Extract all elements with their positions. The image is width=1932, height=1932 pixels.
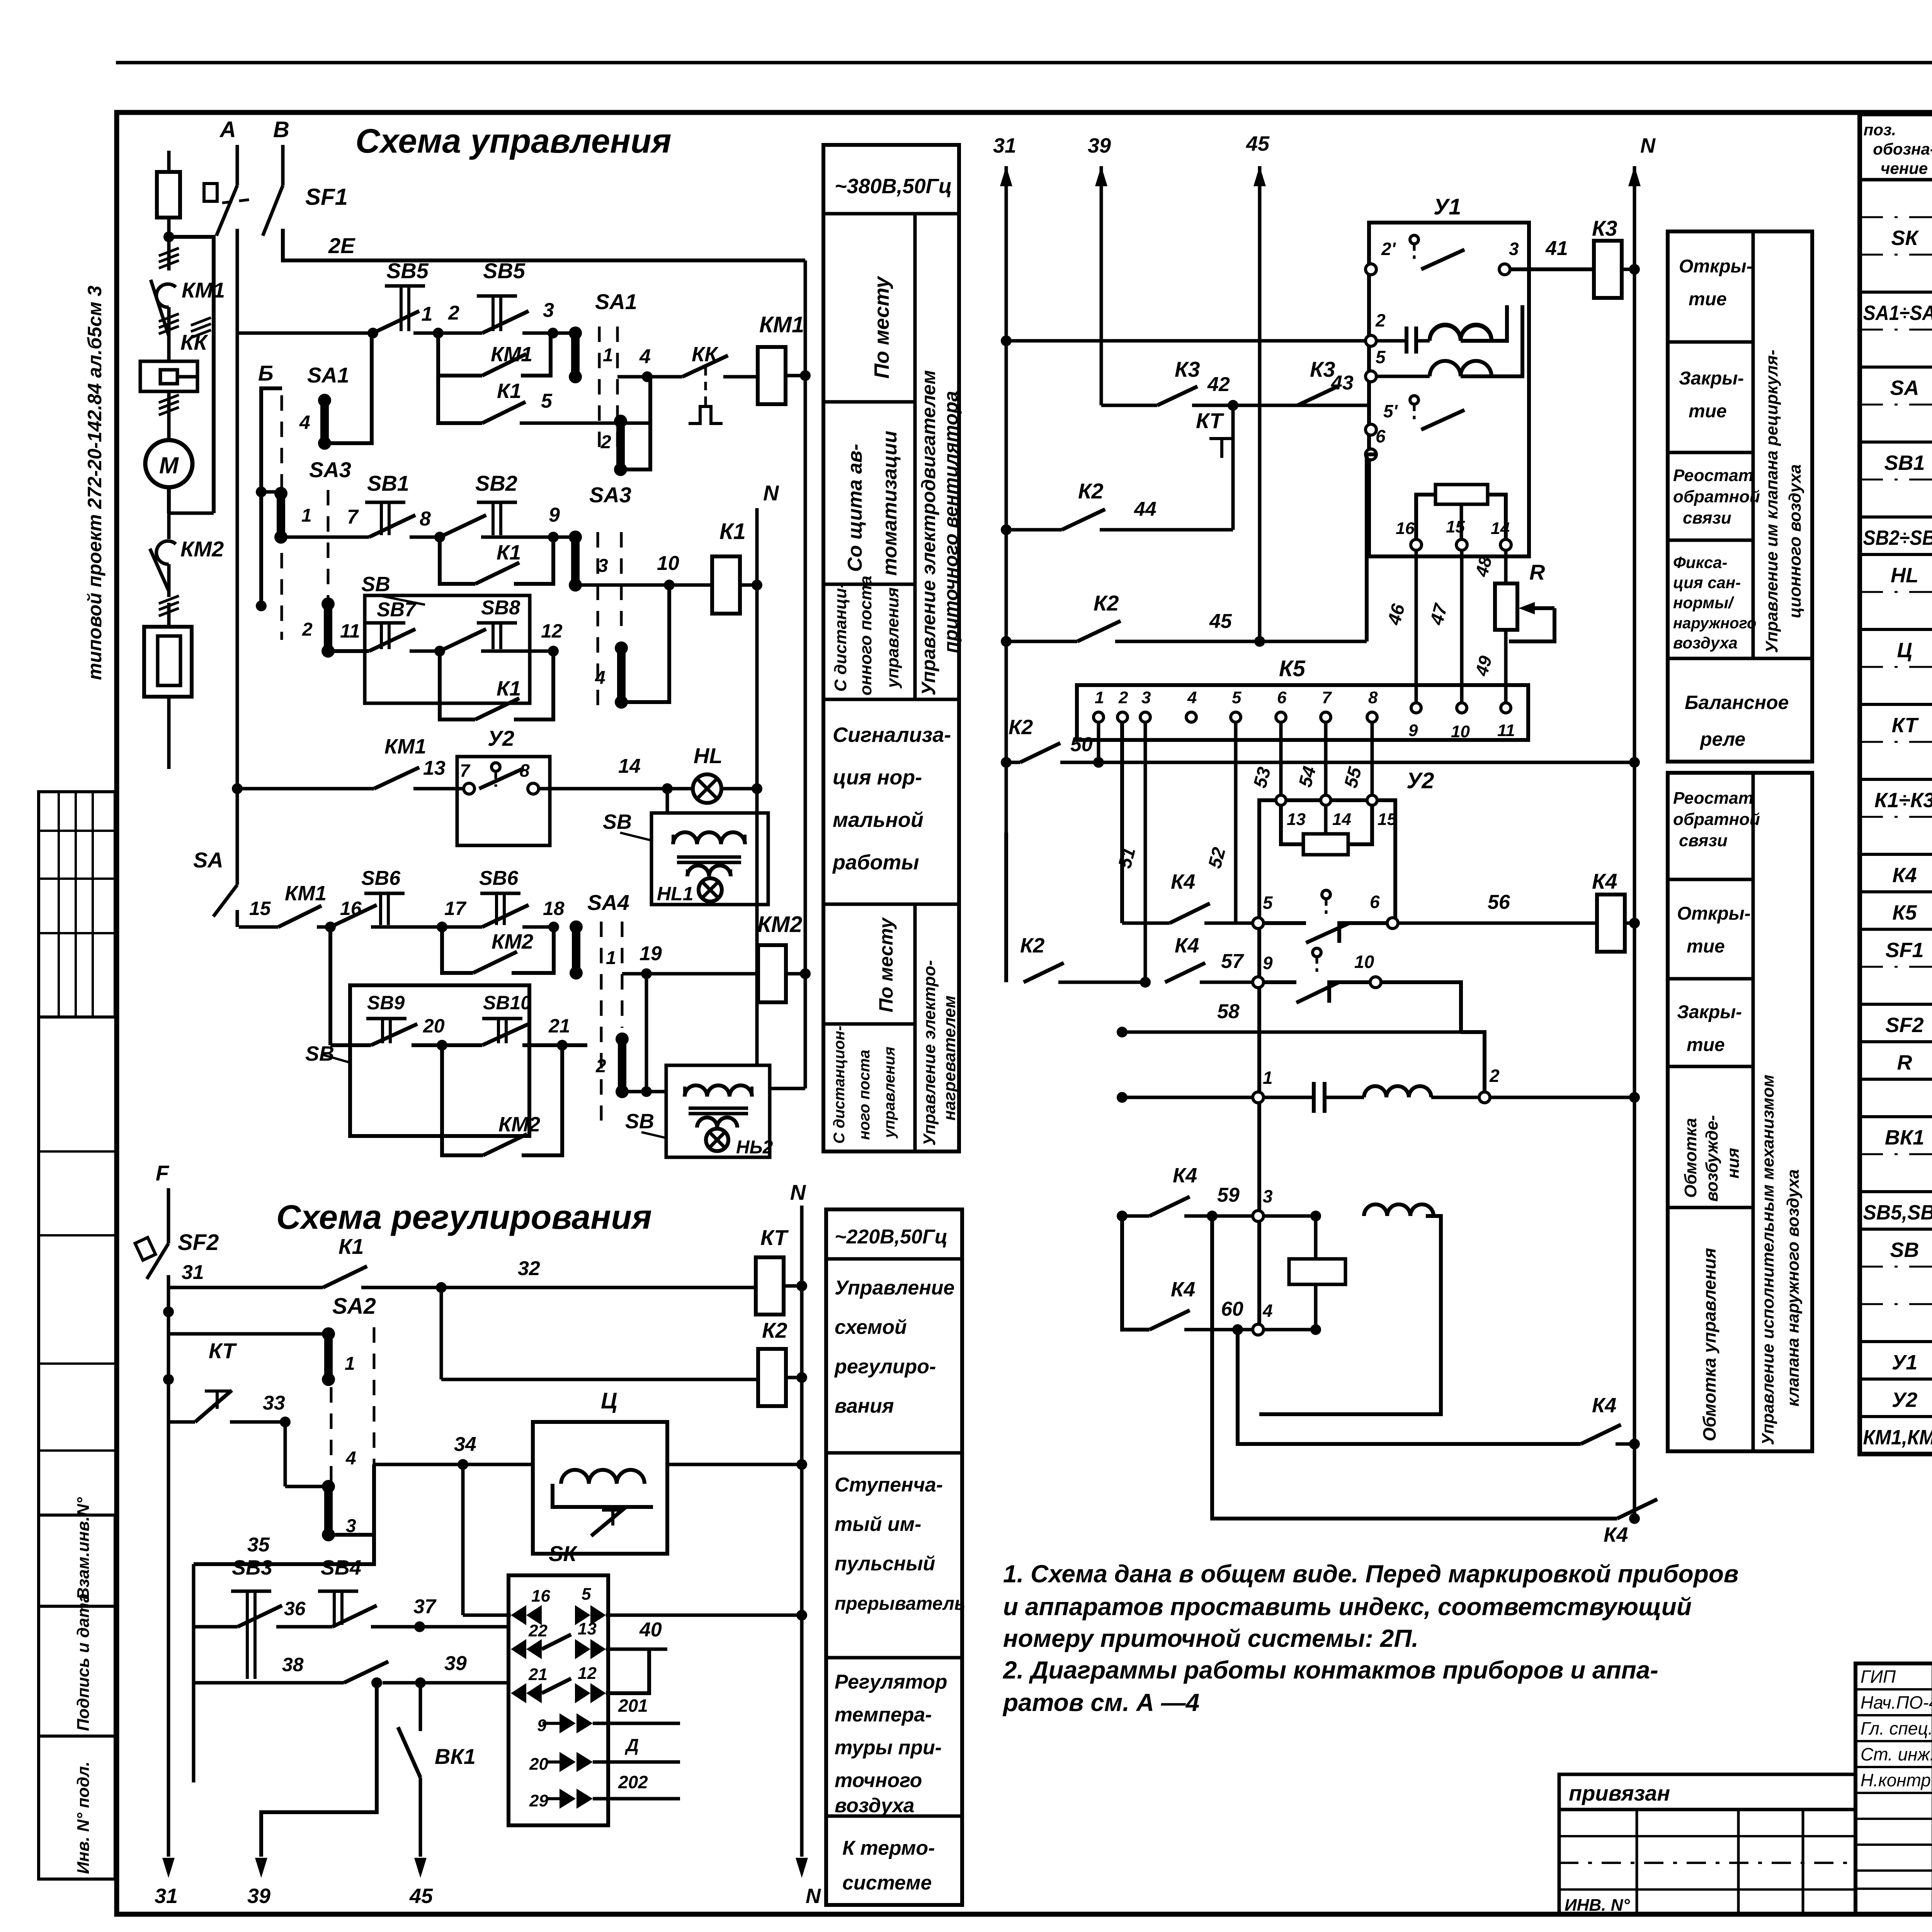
parts table outer [1860, 114, 1932, 1454]
svg-text:34: 34 [454, 1433, 476, 1456]
label column regulation outer [826, 1209, 962, 1905]
svg-text:регулиро-: регулиро- [834, 1355, 936, 1378]
svg-text:По месту: По месту [875, 917, 897, 1012]
wire K2 row [440, 1287, 443, 1379]
svg-text:9: 9 [549, 504, 560, 526]
svg-text:темпера-: темпера- [835, 1704, 932, 1726]
svg-text:SF2: SF2 [1885, 1014, 1923, 1037]
svg-text:SА: SА [1890, 376, 1919, 400]
winding HL2 core [689, 1107, 748, 1110]
cell signalizatsiya [823, 903, 959, 906]
wire coil KM1 to bus [786, 374, 805, 378]
svg-text:Закры-: Закры- [1679, 368, 1744, 389]
svg-text:связи: связи [1683, 509, 1731, 527]
svg-text:К2: К2 [1009, 716, 1033, 739]
svg-text:К1÷К3: К1÷К3 [1874, 789, 1932, 812]
node 1a [367, 328, 378, 338]
svg-text:ция нор-: ция нор- [833, 766, 922, 789]
contact KM1 aux [374, 767, 419, 789]
parts table header line [1860, 178, 1932, 182]
svg-text:ния: ния [1724, 1148, 1743, 1179]
left rotated label strip [39, 1515, 115, 1879]
wire 11 [328, 649, 369, 653]
svg-text:37: 37 [413, 1595, 437, 1618]
svg-text:8: 8 [520, 760, 530, 781]
svg-text:Ц: Ц [1897, 639, 1912, 662]
svg-text:SВ6: SВ6 [479, 867, 519, 889]
svg-text:SF2: SF2 [178, 1230, 219, 1255]
svg-text:SВ6: SВ6 [361, 867, 401, 889]
svg-text:Управление им клапана рециркул: Управление им клапана рециркуля- [1762, 350, 1781, 653]
U1 capacitor [1398, 336, 1430, 337]
divider label col [913, 214, 917, 699]
svg-text:5: 5 [1263, 893, 1273, 913]
svg-text:4: 4 [639, 345, 651, 368]
cell 380V [823, 212, 959, 216]
left stamp mini-table [39, 792, 115, 1017]
svg-text:22: 22 [528, 1621, 548, 1640]
svg-text:5: 5 [541, 390, 553, 412]
wire HL2 to bus [770, 1087, 805, 1090]
svg-text:К2: К2 [1078, 479, 1104, 503]
svg-text:Откры-: Откры- [1677, 903, 1751, 924]
wire 53 [1279, 722, 1283, 800]
svg-text:номеру приточной системы: 2П: номеру приточной системы: 2П. [1003, 1624, 1418, 1652]
wire HL to box [666, 789, 669, 813]
svg-text:14: 14 [1332, 810, 1351, 829]
svg-text:57: 57 [1221, 950, 1244, 973]
switch SA1 left dashed [281, 395, 283, 640]
cell reostat 1 [1668, 539, 1753, 542]
svg-text:Закры-: Закры- [1677, 1002, 1742, 1022]
svg-text:14: 14 [1491, 519, 1510, 538]
U2 contact 5-6 [1253, 918, 1264, 929]
svg-text:Инв. N° подл.: Инв. N° подл. [74, 1762, 93, 1874]
contact KM1 interlock [278, 906, 321, 927]
svg-text:К1: К1 [338, 1234, 364, 1259]
contact KM1 power [167, 237, 171, 270]
wire 14 [538, 787, 693, 791]
contact K1 holding [440, 537, 475, 584]
cell obmotka vozbuzhdeniya rotated [1668, 1206, 1753, 1209]
switch SA1 dashed [598, 327, 601, 456]
svg-text:В: В [273, 117, 289, 142]
svg-text:КМ1,КМ2: КМ1,КМ2 [1863, 1426, 1932, 1449]
svg-text:3: 3 [1509, 239, 1519, 259]
svg-text:3: 3 [1263, 1186, 1273, 1206]
svg-text:К4: К4 [1171, 1278, 1195, 1301]
svg-text:SВ10: SВ10 [483, 992, 531, 1014]
svg-text:17: 17 [444, 898, 467, 919]
svg-text:39: 39 [1088, 134, 1111, 157]
svg-text:SВ9: SВ9 [367, 992, 405, 1014]
svg-text:К2: К2 [1020, 934, 1044, 957]
svg-text:8: 8 [420, 508, 431, 530]
wire 38 row [194, 1681, 344, 1685]
terminal 7 [464, 783, 474, 794]
wire Ts right [667, 1463, 802, 1466]
svg-text:С дистанцион-: С дистанцион- [831, 1026, 848, 1144]
bus A [236, 145, 239, 185]
wire 36 row [194, 1625, 238, 1629]
relay box U2 [1289, 1259, 1345, 1284]
svg-text:4: 4 [595, 668, 605, 688]
svg-text:Реостат: Реостат [1673, 466, 1753, 485]
wire 31-32 row [168, 1286, 323, 1289]
U1 rheostat [1435, 485, 1488, 504]
svg-text:тие: тие [1687, 1035, 1725, 1055]
svg-text:КТ: КТ [1196, 408, 1225, 433]
svg-text:КМ2: КМ2 [757, 912, 802, 937]
svg-text:F: F [156, 1161, 170, 1185]
svg-text:6: 6 [1370, 892, 1380, 912]
svg-text:SВ5,SВ6: SВ5,SВ6 [1863, 1201, 1932, 1224]
bus 2E vertical [804, 260, 807, 1088]
cell zakrytie [1668, 451, 1753, 454]
wire bypass right branch [169, 237, 214, 513]
svg-text:SА3: SА3 [309, 457, 351, 482]
svg-text:6: 6 [1277, 688, 1287, 707]
svg-text:4: 4 [1262, 1301, 1273, 1321]
svg-text:10: 10 [1451, 722, 1470, 741]
bus A lower [236, 229, 239, 885]
svg-text:ВК1: ВК1 [435, 1744, 476, 1769]
svg-text:тый им-: тый им- [835, 1513, 921, 1536]
breaker marks KM1 power [159, 260, 179, 268]
svg-text:тие: тие [1689, 289, 1727, 310]
svg-text:К4: К4 [1171, 870, 1195, 893]
svg-text:К4: К4 [1892, 864, 1917, 887]
svg-text:нормы/: нормы/ [1673, 594, 1735, 612]
breaker marks motor [159, 407, 179, 415]
svg-text:схемой: схемой [835, 1316, 907, 1338]
svg-text:К4: К4 [1173, 1164, 1197, 1187]
svg-text:6: 6 [1376, 426, 1386, 446]
arrow 31 top mid [1000, 166, 1012, 186]
svg-text:К4: К4 [1175, 934, 1199, 957]
cell upravlenie schemoi [826, 1451, 962, 1455]
svg-text:10: 10 [657, 552, 679, 575]
svg-text:Гл. спец.: Гл. спец. [1861, 1718, 1932, 1738]
svg-text:2: 2 [1375, 310, 1386, 330]
cell fiksatsiya [1668, 657, 1812, 660]
svg-text:Б: Б [258, 361, 274, 385]
svg-text:16: 16 [1396, 519, 1415, 538]
wire 19 down [645, 974, 648, 1092]
svg-text:60: 60 [1221, 1298, 1243, 1320]
svg-text:связи: связи [1679, 831, 1728, 850]
svg-text:онного поста: онного поста [856, 576, 875, 696]
svg-text:N: N [806, 1884, 821, 1908]
wire 56 [1398, 922, 1599, 925]
svg-text:К4: К4 [1604, 1523, 1628, 1546]
node 3 [548, 328, 558, 338]
svg-text:К5: К5 [1892, 901, 1917, 924]
svg-text:Д: Д [624, 1735, 639, 1755]
svg-text:19: 19 [639, 942, 662, 965]
svg-text:13: 13 [1287, 810, 1306, 829]
label column middle outer [1668, 231, 1812, 762]
svg-text:томатизации: томатизации [879, 431, 901, 576]
svg-text:12: 12 [541, 620, 563, 642]
cell stupenchaty [826, 1656, 962, 1660]
switch SA3 bar upper [553, 536, 575, 539]
svg-text:ционного воздуха: ционного воздуха [1786, 464, 1804, 619]
svg-text:воздуха: воздуха [835, 1794, 915, 1817]
svg-text:2: 2 [1489, 1066, 1500, 1086]
svg-text:точного: точного [835, 1769, 922, 1792]
svg-text:59: 59 [1217, 1184, 1240, 1206]
svg-text:КМ1: КМ1 [491, 343, 532, 366]
svg-text:44: 44 [1134, 498, 1156, 520]
privyazan grid [1559, 1810, 1855, 1915]
svg-text:К3: К3 [1592, 216, 1617, 240]
svg-text:SВ4: SВ4 [321, 1556, 361, 1579]
svg-text:ВК1: ВК1 [1885, 1126, 1924, 1149]
wire 15 row [239, 925, 278, 929]
svg-text:обратной: обратной [1673, 810, 1760, 829]
svg-text:пульсный: пульсный [835, 1553, 935, 1575]
svg-text:35: 35 [247, 1534, 270, 1556]
svg-text:R: R [1529, 560, 1545, 584]
svg-text:39: 39 [444, 1652, 467, 1675]
svg-text:Управление: Управление [835, 1277, 954, 1299]
svg-text:обозна-: обозна- [1873, 140, 1932, 158]
svg-text:SК: SК [549, 1541, 578, 1566]
svg-text:SА4: SА4 [587, 890, 629, 915]
cell otkrytie 2 [1668, 977, 1753, 981]
svg-text:2: 2 [595, 1056, 606, 1077]
box SB HL1 [651, 813, 768, 905]
svg-text:КТ: КТ [209, 1338, 237, 1363]
svg-text:18: 18 [543, 898, 565, 919]
svg-text:2Е: 2Е [328, 233, 355, 258]
U1 terminal 6 [1366, 449, 1376, 460]
node 16 [325, 922, 336, 932]
svg-text:Ц: Ц [601, 1388, 617, 1413]
wire 4 [617, 375, 682, 379]
wire 48 [1504, 549, 1508, 583]
svg-text:4: 4 [299, 412, 310, 433]
svg-text:1: 1 [301, 505, 312, 526]
svg-text:SВ: SВ [1890, 1238, 1919, 1262]
node 11-12 [434, 646, 445, 656]
svg-text:мальной: мальной [833, 808, 923, 832]
box SB7 SB8 [365, 595, 530, 703]
svg-text:31: 31 [155, 1884, 178, 1908]
svg-text:воздуха: воздуха [1673, 634, 1738, 652]
svg-text:привязан: привязан [1569, 1781, 1670, 1805]
svg-text:КК: КК [692, 343, 719, 366]
svg-text:К1: К1 [497, 379, 521, 403]
svg-text:тие: тие [1687, 936, 1725, 957]
node F1 [163, 1306, 174, 1317]
wire 54 [1324, 722, 1328, 800]
svg-text:К4: К4 [1592, 869, 1617, 893]
svg-text:20: 20 [529, 1755, 548, 1774]
switch SF2 [135, 1238, 156, 1260]
svg-text:КМ1: КМ1 [384, 735, 426, 758]
node 20 [437, 1040, 447, 1051]
svg-text:ция сан-: ция сан- [1673, 573, 1741, 592]
arrow N bottom [796, 1858, 808, 1878]
svg-text:SВ: SВ [305, 1042, 334, 1065]
svg-text:SА1: SА1 [307, 363, 349, 387]
U2 terminals 13-14-15 [1276, 795, 1286, 805]
wire node16 down [328, 927, 332, 1045]
svg-text:SА3: SА3 [589, 483, 631, 507]
contact K1 reg [323, 1266, 367, 1287]
svg-text:К1: К1 [497, 541, 521, 564]
svg-text:Ст. инж.: Ст. инж. [1861, 1744, 1932, 1764]
svg-text:15: 15 [1446, 517, 1465, 536]
U2 contact 9-10 [1253, 977, 1264, 988]
svg-text:2: 2 [1118, 688, 1128, 707]
svg-text:К2: К2 [1094, 591, 1119, 615]
switch SA2 lower bar [284, 1422, 287, 1486]
winding U2 main [1364, 1086, 1431, 1097]
wire 2E [283, 229, 805, 260]
svg-text:2. Диаграммы работы контактов: 2. Диаграммы работы контактов приборов и… [1003, 1656, 1658, 1684]
svg-text:SВ8: SВ8 [481, 597, 520, 619]
svg-text:обратной: обратной [1673, 487, 1760, 506]
svg-text:1: 1 [603, 345, 613, 366]
svg-text:SF1: SF1 [1885, 939, 1923, 962]
svg-text:КТ: КТ [1892, 714, 1919, 737]
svg-text:реле: реле [1699, 728, 1745, 750]
node 2 [413, 332, 438, 335]
svg-text:Управление электродвигателем: Управление электродвигателем [918, 370, 939, 696]
wire to SA2 [168, 1332, 328, 1336]
svg-text:45: 45 [409, 1884, 433, 1908]
svg-text:Управление электро-: Управление электро- [920, 960, 939, 1146]
svg-text:управления: управления [881, 1047, 898, 1139]
svg-text:1: 1 [1263, 1068, 1273, 1088]
svg-text:45: 45 [1246, 132, 1270, 155]
contact Ts [591, 1507, 626, 1536]
breaker marks KK [159, 326, 179, 334]
svg-text:и аппаратов проставить индекс: и аппаратов проставить индекс, соответст… [1003, 1593, 1692, 1621]
svg-text:ИНВ. N°: ИНВ. N° [1565, 1896, 1630, 1915]
svg-text:К4: К4 [1592, 1394, 1616, 1417]
svg-text:управления: управления [883, 587, 902, 689]
svg-text:20: 20 [423, 1015, 445, 1037]
svg-text:К1: К1 [719, 519, 746, 544]
svg-text:2: 2 [448, 302, 459, 324]
svg-text:N: N [763, 481, 779, 505]
svg-text:КТ: КТ [760, 1225, 789, 1250]
svg-text:13: 13 [423, 757, 446, 779]
arrow 45 top mid [1253, 166, 1266, 186]
fuse box 2 [144, 627, 192, 697]
wire 39 arrow [261, 1683, 377, 1857]
label column middle lower outer [1668, 773, 1812, 1451]
arrow N top mid [1628, 166, 1641, 186]
svg-text:5: 5 [1376, 347, 1386, 367]
svg-text:11: 11 [340, 620, 360, 642]
svg-text:Ступенча-: Ступенча- [835, 1474, 943, 1496]
svg-text:SВ: SВ [603, 810, 632, 833]
contact K1 lower holding [440, 651, 475, 719]
svg-text:А: А [219, 117, 236, 142]
K5 terminals [1094, 712, 1104, 722]
wire 58 [1381, 982, 1461, 1032]
svg-text:7: 7 [460, 760, 471, 781]
wire K5 t2 drop [1120, 722, 1124, 923]
svg-text:КМ2: КМ2 [180, 537, 224, 561]
svg-text:2: 2 [600, 432, 611, 452]
svg-text:9: 9 [1408, 721, 1418, 740]
left stamp empty cells [39, 1150, 115, 1153]
winding HL1 upper [673, 832, 745, 844]
box SB9 SB10 [350, 985, 529, 1136]
svg-text:1: 1 [422, 303, 433, 325]
svg-text:SB2: SB2 [475, 471, 517, 495]
svg-text:Обмотка: Обмотка [1681, 1118, 1700, 1198]
svg-text:11: 11 [1497, 721, 1515, 740]
node 17 [437, 922, 447, 932]
cell regulyator [826, 1815, 962, 1818]
svg-text:НL: НL [694, 743, 723, 768]
svg-text:Подпись и дата: Подпись и дата [74, 1593, 93, 1731]
svg-text:SВ3: SВ3 [232, 1556, 272, 1579]
switch SA4 bar [570, 920, 583, 934]
wire bottom loop 2 [1212, 1216, 1617, 1519]
title block signature table [1855, 1663, 1932, 1915]
lamp HL2 [706, 1129, 728, 1151]
svg-text:SВ1: SВ1 [1884, 451, 1925, 474]
svg-text:КМ2: КМ2 [498, 1113, 540, 1136]
svg-text:Схема регулирования: Схема регулирования [276, 1198, 652, 1236]
svg-text:10: 10 [1354, 952, 1374, 972]
svg-text:SВ2÷SВ4: SВ2÷SВ4 [1863, 526, 1932, 549]
svg-text:21: 21 [548, 1015, 570, 1037]
svg-text:5: 5 [582, 1585, 591, 1604]
svg-text:4: 4 [345, 1448, 356, 1469]
wire 35 [194, 1535, 374, 1564]
svg-text:N: N [790, 1180, 806, 1204]
cell otkrytie [1668, 340, 1753, 344]
svg-text:Сигнализа-: Сигнализа- [833, 723, 951, 747]
cell zakrytie 2 [1668, 1065, 1753, 1068]
bus B upper [281, 145, 285, 185]
svg-text:N: N [1640, 134, 1656, 157]
wire 49 [1504, 630, 1508, 704]
svg-text:ного поста: ного поста [856, 1050, 873, 1140]
contact KK thermal [682, 355, 728, 377]
svg-text:1: 1 [1095, 688, 1104, 707]
U1 contact 2prime [1366, 264, 1376, 275]
motor M [167, 421, 171, 440]
svg-text:К5: К5 [1279, 656, 1306, 681]
svg-text:1: 1 [345, 1354, 355, 1374]
arrow 39 top mid [1095, 166, 1107, 186]
svg-text:К термо-: К термо- [842, 1837, 935, 1859]
svg-text:SB5: SB5 [386, 259, 429, 283]
fuse FU1 [167, 151, 171, 172]
svg-text:Н.контр.: Н.контр. [1861, 1770, 1932, 1790]
switch SF1 [216, 185, 237, 236]
svg-text:По месту: По месту [870, 276, 893, 379]
switch SA3 left dashed [327, 490, 330, 651]
svg-text:Регулятор: Регулятор [835, 1671, 947, 1693]
wire K5 t1 drop [1097, 722, 1100, 762]
cell reostat 2 [1668, 878, 1753, 881]
box SB HL2 [666, 1065, 770, 1157]
switch SA left lower bar 2 [321, 597, 335, 611]
switch SA3 lower bar [615, 641, 628, 655]
svg-text:9: 9 [537, 1716, 547, 1735]
